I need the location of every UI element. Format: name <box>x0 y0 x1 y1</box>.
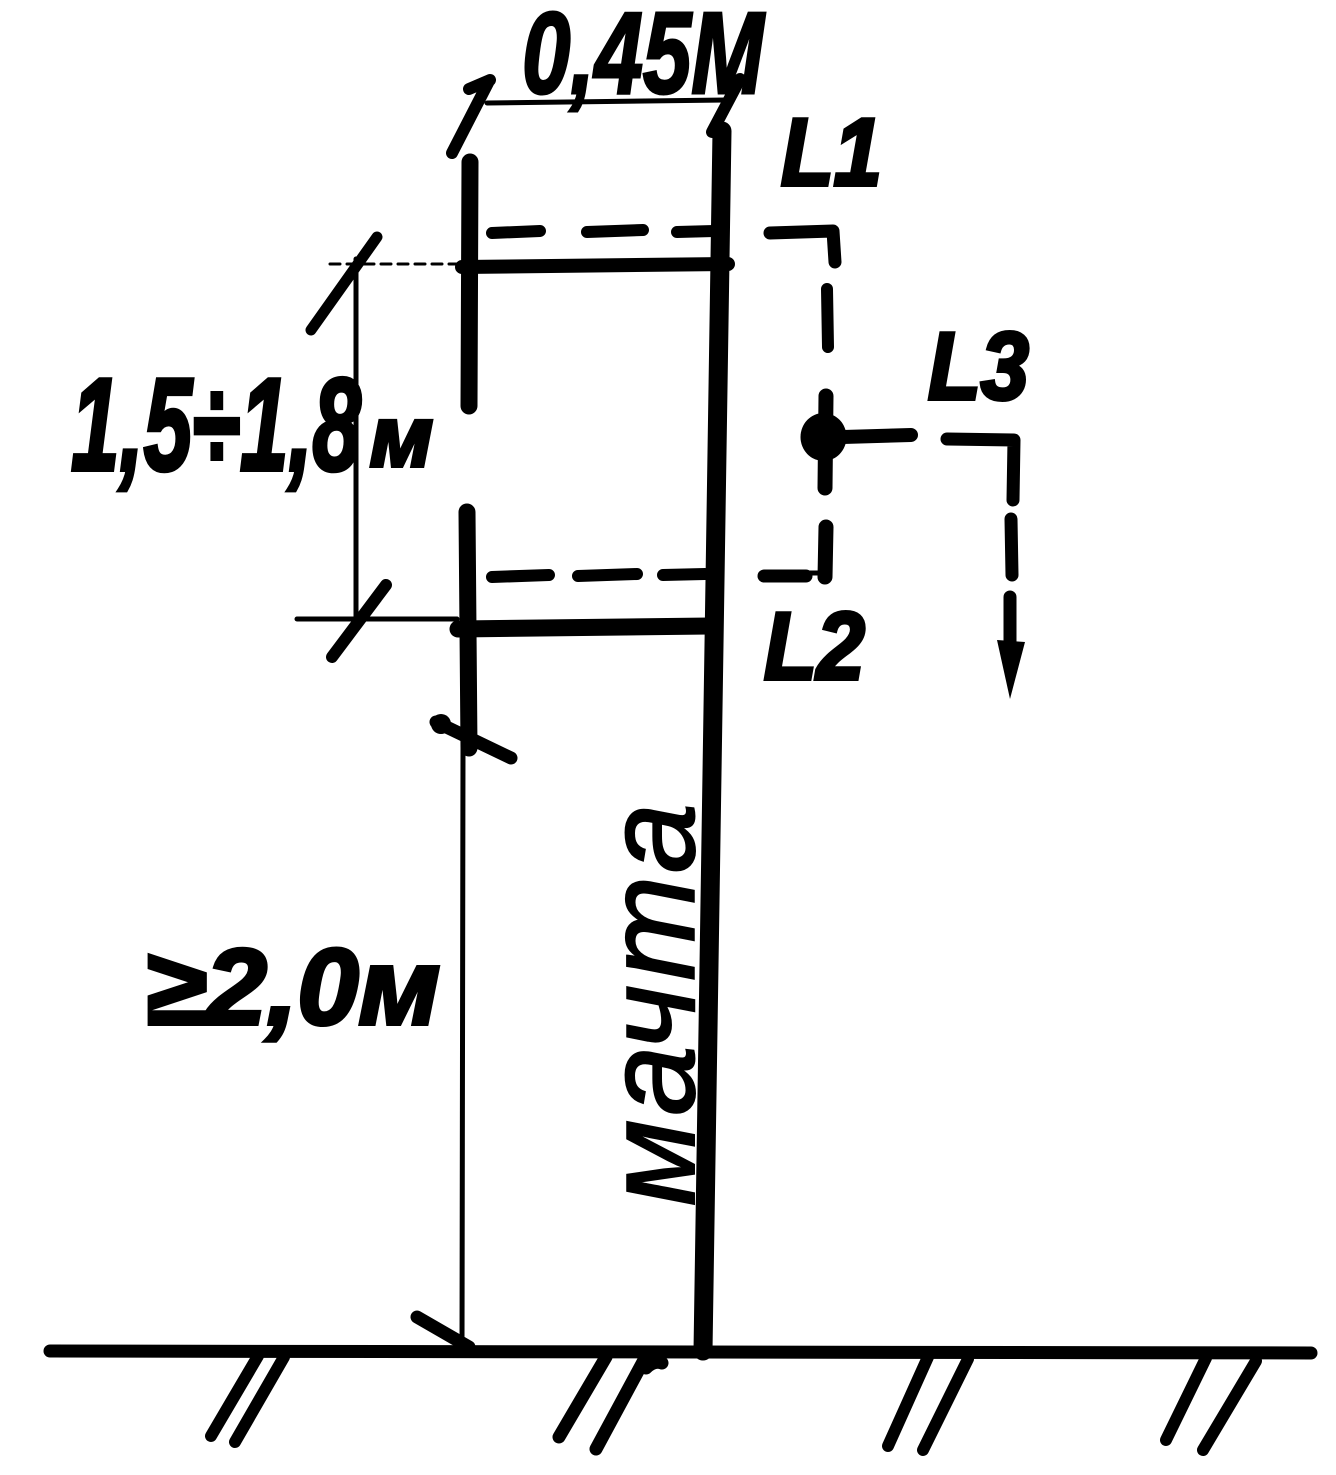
wire L1 dashed feeder upper <box>492 230 835 347</box>
lower crossbar <box>458 626 710 629</box>
tick top <box>311 237 377 330</box>
tick right <box>712 79 740 132</box>
extension line top <box>330 263 461 266</box>
svg-text:0,45М: 0,45М <box>522 0 766 118</box>
wire tap to L3 <box>843 435 911 437</box>
ground hatch 1 <box>211 1356 284 1442</box>
upper dipole element <box>469 162 470 406</box>
mast vertical line <box>703 131 722 1351</box>
ground hatch 4 <box>1166 1358 1256 1450</box>
label >=2,0m <box>145 927 440 1048</box>
dimension line 0,45M <box>487 100 726 103</box>
svg-text:L1: L1 <box>781 99 882 206</box>
wire L2 dashed feeder lower <box>492 527 826 577</box>
label L1 <box>781 99 882 206</box>
wire L3 dashed drop with arrow <box>947 439 1014 644</box>
tick left <box>452 80 490 153</box>
dimension line 1,5-1,8 <box>354 259 359 619</box>
svg-text:L2: L2 <box>764 593 865 700</box>
ground hatch 3 <box>888 1357 968 1450</box>
tick top <box>436 722 511 758</box>
upper crossbar <box>462 264 728 267</box>
label L2 <box>764 593 865 700</box>
ground line <box>50 1351 1311 1353</box>
label m <box>370 390 433 485</box>
label machta (mast) <box>580 799 721 1206</box>
arrowhead <box>997 640 1025 699</box>
label L3 <box>928 313 1029 420</box>
label 0,45M <box>522 0 766 118</box>
ground hatch 2 <box>559 1357 662 1449</box>
dimension line 2,0m <box>462 749 463 1348</box>
label 1,5-1,8 <box>71 351 362 499</box>
tick bottom <box>332 585 386 657</box>
extension line bottom <box>297 617 457 622</box>
svg-text:мачта: мачта <box>580 799 721 1206</box>
tick bottom <box>417 1317 469 1347</box>
node junction dot <box>825 396 826 488</box>
svg-text:≥2,0м: ≥2,0м <box>145 927 440 1048</box>
svg-text:L3: L3 <box>928 313 1029 420</box>
svg-text:1,5÷1,8: 1,5÷1,8 <box>71 351 362 499</box>
svg-text:м: м <box>370 390 433 485</box>
lower dipole element <box>467 512 469 748</box>
